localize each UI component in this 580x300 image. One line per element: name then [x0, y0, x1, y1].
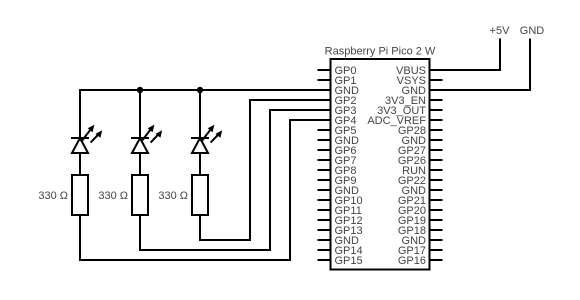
pin 7 (left) GP5 — [319, 125, 357, 137]
pin 12 (left) GP9 — [319, 175, 357, 187]
pin 24 (right) 3V3_EN — [385, 95, 441, 107]
pin 28 (right) GND — [402, 135, 442, 147]
svg-text:GP16: GP16 — [398, 255, 426, 267]
wire: LED D3 anode to resistor R3 — [199, 153, 201, 175]
junction node: LED D3 cathode on GND rail — [197, 87, 203, 93]
pin 21 (right) VBUS — [396, 65, 426, 77]
svg-text:GND: GND — [520, 25, 545, 37]
pin 6 (left) GP4 — [335, 115, 357, 127]
wire: GND rail down to LED D3 cathode — [199, 90, 201, 138]
pin 30 (right) GP26 — [398, 155, 442, 167]
svg-text:330 Ω: 330 Ω — [38, 190, 68, 202]
svg-text:330 Ω: 330 Ω — [158, 190, 188, 202]
LED D2 (light-emitting diode) — [132, 125, 162, 153]
LED D1 (light-emitting diode) — [72, 125, 102, 153]
wire: resistor R3 to GP2 — [200, 100, 331, 240]
svg-text:GP15: GP15 — [335, 255, 363, 267]
pin 38 (right) GND — [402, 235, 442, 247]
wire: VBUS to +5V — [430, 40, 501, 71]
pin 19 (left) GP14 — [319, 245, 363, 257]
pin 34 (right) GP21 — [398, 195, 442, 207]
wire: LED D2 anode to resistor R2 — [139, 153, 141, 175]
pin 25 (right) 3V3_OUT — [377, 105, 441, 117]
pin 39 (right) GP17 — [398, 245, 442, 257]
svg-text:330 Ω: 330 Ω — [98, 190, 128, 202]
wire: LED D1 anode to resistor R1 — [79, 153, 81, 175]
pin 23 (right) GND — [402, 85, 427, 97]
pin 15 (left) GP11 — [319, 205, 362, 217]
wire: resistor R1 to GP4 — [80, 120, 331, 260]
pin 18 (left) GND — [319, 235, 360, 247]
pin 40 (right) GP16 — [398, 255, 442, 267]
pin 26 (right) ADC_VREF — [367, 115, 441, 127]
pin 16 (left) GP12 — [319, 215, 363, 227]
resistor R3 — [192, 175, 208, 215]
pin 10 (left) GP7 — [319, 155, 357, 167]
pin 11 (left) GP8 — [319, 165, 357, 177]
pin 2 (left) GP1 — [319, 75, 357, 87]
pin 22 (right) VSYS — [397, 75, 442, 87]
pin 1 (left) GP0 — [319, 65, 357, 77]
wire: resistor R2 to GP3 — [140, 110, 331, 250]
pin 29 (right) GP27 — [398, 145, 442, 157]
resistor R2 — [132, 175, 148, 215]
pin 32 (right) GP22 — [398, 175, 442, 187]
pin 31 (right) RUN — [402, 165, 441, 177]
junction node: LED D2 cathode on GND rail — [137, 87, 143, 93]
pin 5 (left) GP3 — [335, 105, 357, 117]
pin 3 (left) GND — [335, 85, 360, 97]
LED D3 (light-emitting diode) — [192, 125, 222, 153]
pin 9 (left) GP6 — [319, 145, 357, 157]
pin 37 (right) GP18 — [398, 225, 442, 237]
pin 20 (left) GP15 — [319, 255, 363, 267]
pin 8 (left) GND — [319, 135, 360, 147]
wire: GND rail down to LED D2 cathode — [139, 90, 141, 138]
pin 14 (left) GP10 — [319, 195, 363, 207]
IC U1: Raspberry Pi Pico 2 W body — [331, 59, 430, 270]
pin 36 (right) GP19 — [398, 215, 442, 227]
svg-text:Raspberry Pi Pico 2 W: Raspberry Pi Pico 2 W — [325, 46, 436, 58]
pin 4 (left) GP2 — [335, 95, 357, 107]
pin 17 (left) GP13 — [319, 225, 363, 237]
resistor R1 — [72, 175, 88, 215]
pin 13 (left) GND — [319, 185, 360, 197]
pin 33 (right) GND — [402, 185, 442, 197]
svg-text:+5V: +5V — [490, 25, 511, 37]
wire: GND rail down to LED D1 cathode — [79, 90, 81, 138]
pin 35 (right) GP20 — [398, 205, 442, 217]
wire: chip GND (right) to GND terminal — [430, 40, 531, 91]
pin 27 (right) GP28 — [398, 125, 442, 137]
wire: GND rail from LED cathodes to chip GND pin — [80, 89, 331, 91]
